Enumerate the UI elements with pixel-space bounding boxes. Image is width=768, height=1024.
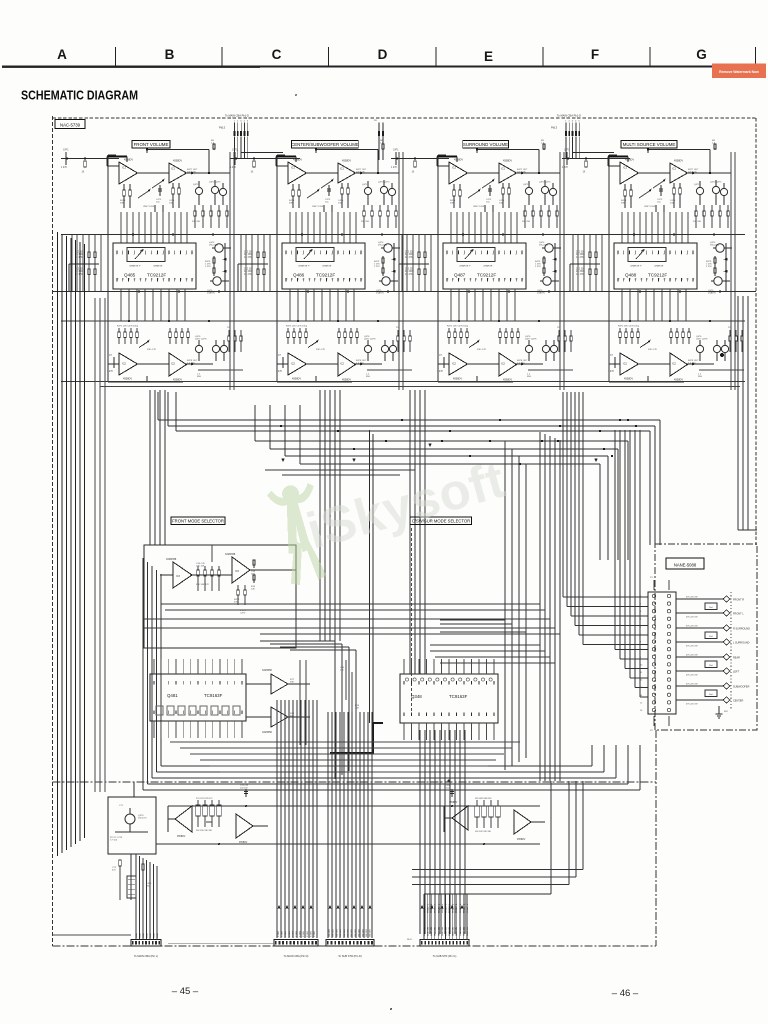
cluster B triangle 2 xyxy=(514,810,531,834)
op-amp Q488d xyxy=(670,353,688,376)
selector lower wire rows xyxy=(170,741,520,743)
svg-text:SW SIG: SW SIG xyxy=(340,929,342,937)
connector strip To SUB STR (Pin D) xyxy=(326,940,374,947)
svg-text:4: 4 xyxy=(134,254,135,256)
svg-text:IC1: IC1 xyxy=(340,168,345,171)
svg-text:VR4?1 20K: VR4?1 20K xyxy=(312,206,324,208)
nested loops right of selector xyxy=(504,441,506,770)
svg-text:NJM4558: NJM4558 xyxy=(262,670,273,672)
transistor Q487 T2 xyxy=(541,186,548,193)
svg-text:4558DV: 4558DV xyxy=(177,836,186,838)
resistor xyxy=(679,183,681,188)
nested loops center xyxy=(334,641,336,779)
transistor Q485 T1 xyxy=(195,187,202,194)
wire drops to switch IC xyxy=(621,212,623,243)
resistor input stub xyxy=(253,161,256,167)
schematic lower-right border xyxy=(655,730,657,946)
svg-text:GND: GND xyxy=(143,933,145,938)
svg-text:33K 4.7K: 33K 4.7K xyxy=(477,349,487,351)
svg-text:R4?2 10K C4?6 100p: R4?2 10K C4?6 100p xyxy=(447,326,469,328)
svg-text:IC1: IC1 xyxy=(122,167,127,170)
bus right corner verticals xyxy=(659,420,661,545)
svg-text:19: 19 xyxy=(487,279,489,281)
svg-text:GND: GND xyxy=(153,933,155,938)
svg-text:1: 1 xyxy=(285,254,286,256)
selector IC Q481 TC9163F xyxy=(150,674,246,721)
op-amp Q485d xyxy=(169,353,187,376)
svg-text:21: 21 xyxy=(652,279,654,281)
resistor stubs right of IC xyxy=(714,256,716,276)
svg-text:IC1: IC1 xyxy=(452,167,457,170)
svg-text:C4?1: C4?1 xyxy=(63,150,69,152)
svg-text:7: 7 xyxy=(320,254,321,256)
feedback loop op-amp1 bold xyxy=(608,155,628,157)
op-amp Q487c xyxy=(449,353,468,375)
resistor stubs right of IC xyxy=(213,256,215,276)
schematic right border xyxy=(755,118,757,545)
verticals bus to NANE right group xyxy=(614,430,616,650)
svg-text:24: 24 xyxy=(629,279,631,281)
svg-text:C SIG: C SIG xyxy=(285,931,287,937)
svg-text:47K 220 1W: 47K 220 1W xyxy=(686,674,697,676)
bus rail y381 xyxy=(61,381,745,383)
potentiometer lower wiper xyxy=(640,341,650,348)
svg-text:8: 8 xyxy=(326,254,327,256)
svg-text:SW SIG: SW SIG xyxy=(366,929,368,937)
svg-text:Ref: Ref xyxy=(709,665,713,667)
transistor Q486 T2 xyxy=(380,186,387,193)
svg-text:47K 220 1W: 47K 220 1W xyxy=(686,655,697,657)
svg-text:GND: GND xyxy=(150,933,152,938)
svg-text:Q4?7 Q4?8: Q4?7 Q4?8 xyxy=(364,339,376,341)
svg-text:7: 7 xyxy=(481,254,482,256)
svg-text:1K 47K: 1K 47K xyxy=(576,257,584,259)
potentiometer volume wiper 2 xyxy=(653,180,665,188)
wire right transistor rail xyxy=(554,243,556,292)
svg-text:IC2: IC2 xyxy=(291,363,296,366)
svg-text:4558DV: 4558DV xyxy=(625,159,634,162)
fuse box xyxy=(705,632,717,639)
svg-text:5: 5 xyxy=(139,254,140,256)
bold wire to Q348 xyxy=(369,430,371,723)
svg-text:4: 4 xyxy=(515,254,516,256)
wire input line xyxy=(391,158,449,160)
svg-text:IC3: IC3 xyxy=(176,575,181,578)
svg-text:CHARGE P: CHARGE P xyxy=(459,265,471,268)
svg-text:1K 47K: 1K 47K xyxy=(244,257,252,259)
svg-text:C SIG: C SIG xyxy=(296,931,298,937)
diamond terminals xyxy=(723,596,730,602)
svg-text:1K 47K: 1K 47K xyxy=(75,274,83,276)
svg-text:33K: 33K xyxy=(290,682,294,684)
connector strip To MAIN CBA (Pin L) xyxy=(131,940,161,947)
selector vertical drops to bottom xyxy=(276,700,278,938)
svg-text:FRONT L: FRONT L xyxy=(435,903,437,913)
svg-text:33K 33K 33K 33K: 33K 33K 33K 33K xyxy=(196,830,213,832)
transistor Q488 T8 xyxy=(721,345,728,352)
svg-text:1 27K: 1 27K xyxy=(437,371,443,373)
svg-text:1 27K: 1 27K xyxy=(107,371,113,373)
svg-text:20: 20 xyxy=(469,279,471,281)
svg-text:22: 22 xyxy=(303,279,305,281)
svg-text:C4?1: C4?1 xyxy=(393,150,399,152)
transistor Q485 T6 xyxy=(195,345,202,352)
svg-text:CHARGE: CHARGE xyxy=(322,265,332,268)
svg-text:23: 23 xyxy=(314,279,316,281)
svg-text:18: 18 xyxy=(504,279,506,281)
op-amp Q488c xyxy=(620,353,639,375)
wires around op-amp pair xyxy=(246,683,271,685)
svg-text:12: 12 xyxy=(360,279,362,281)
op-amp Q488b xyxy=(670,163,688,183)
svg-text:1 27K: 1 27K xyxy=(230,167,236,169)
svg-text:FRONT L: FRONT L xyxy=(456,903,458,913)
capacitor coupling xyxy=(489,185,491,196)
scan speck xyxy=(720,353,724,357)
bus group A horizontal xyxy=(158,419,660,421)
wire op-amp1 output xyxy=(468,172,500,174)
svg-text:SW SIG: SW SIG xyxy=(351,929,353,937)
svg-text:IC2: IC2 xyxy=(452,363,457,366)
svg-text:FRONT L: FRONT L xyxy=(460,903,462,913)
capacitor lower input xyxy=(443,357,445,368)
resistor xyxy=(178,183,180,188)
svg-text:9: 9 xyxy=(492,254,493,256)
wire channel loop left xyxy=(437,155,439,382)
vertical bundle right of selector xyxy=(539,432,541,781)
wire lower out xyxy=(198,369,243,371)
transistor Q485 T7 xyxy=(212,345,219,352)
cluster A cap pair xyxy=(245,789,247,797)
arrow heads on drops xyxy=(278,905,281,908)
wire array verticals xyxy=(572,235,574,292)
switch IC Q485 TC9212F xyxy=(113,243,196,289)
right loops inner vertical xyxy=(550,781,552,894)
svg-text:IC1: IC1 xyxy=(171,168,176,171)
resistor network mid xyxy=(484,205,486,212)
svg-text:C SIG: C SIG xyxy=(282,931,284,937)
selector resistor array xyxy=(197,566,199,570)
svg-text:CHARGE: CHARGE xyxy=(654,265,664,268)
svg-text:3: 3 xyxy=(349,254,350,256)
fuse box xyxy=(705,661,717,668)
connector body xyxy=(648,592,676,714)
svg-text:47K 220 1W: 47K 220 1W xyxy=(686,645,697,647)
resistor xyxy=(502,183,504,188)
svg-text:5: 5 xyxy=(640,254,641,256)
resistor stubs right of IC xyxy=(382,256,384,276)
svg-text:IC2: IC2 xyxy=(122,363,127,366)
svg-text:VR4?1 20K: VR4?1 20K xyxy=(644,206,656,208)
svg-text:330 330: 330 330 xyxy=(693,221,702,223)
IC internal switch xyxy=(457,248,495,262)
svg-text:2: 2 xyxy=(623,254,624,256)
svg-text:GND: GND xyxy=(136,933,138,938)
svg-text:2 27K: 2 27K xyxy=(706,266,712,268)
wire lower out xyxy=(367,369,412,371)
resistor xyxy=(459,184,461,190)
svg-text:Pb13: Pb13 xyxy=(219,126,226,130)
resistor bias stubs xyxy=(695,205,697,211)
selector B lower parts xyxy=(237,585,239,590)
wire array verticals xyxy=(401,235,403,292)
svg-text:MULTI SOURCE VOLUME: MULTI SOURCE VOLUME xyxy=(623,142,676,147)
svg-text:NANE-5088: NANE-5088 xyxy=(674,563,697,568)
svg-text:Q4?2 Q4?3: Q4?2 Q4?3 xyxy=(710,182,722,184)
arrowheads on bus xyxy=(281,459,284,462)
svg-text:NJM4558: NJM4558 xyxy=(262,732,273,734)
svg-text:1K 47K: 1K 47K xyxy=(405,257,413,259)
wire to next stage xyxy=(539,172,560,174)
bottom left resistor stubs xyxy=(115,831,148,833)
transistor Q486 T5 xyxy=(382,277,390,285)
svg-text:1 27K: 1 27K xyxy=(608,371,614,373)
svg-text:33K 33K 47K: 33K 33K 47K xyxy=(196,584,209,586)
svg-text:2SC2240: 2SC2240 xyxy=(209,245,219,247)
wire lower channel rail xyxy=(609,381,684,383)
capacitor input xyxy=(395,152,397,165)
svg-text:1: 1 xyxy=(116,254,117,256)
right nested C loops xyxy=(412,869,583,871)
svg-text:SW SIG: SW SIG xyxy=(355,929,357,937)
transistor Q488 T4 xyxy=(716,244,724,252)
svg-text:8: 8 xyxy=(658,254,659,256)
svg-text:1K 47K: 1K 47K xyxy=(75,257,83,259)
svg-text:4558DV: 4558DV xyxy=(503,160,512,163)
svg-text:FRONT L: FRONT L xyxy=(453,903,455,913)
transistor Q486 T8 xyxy=(389,345,396,352)
IC Q481 internal resistor row xyxy=(156,706,163,715)
bottom op-amp cluster B triangle 1 xyxy=(452,806,468,830)
svg-text:12: 12 xyxy=(692,279,694,281)
svg-text:1 27K: 1 27K xyxy=(391,167,397,169)
wire to next stage xyxy=(378,172,399,174)
array corner xyxy=(68,264,70,292)
svg-text:C4?1: C4?1 xyxy=(232,150,238,152)
wire lower op-amp connections xyxy=(639,363,671,365)
svg-text:CHARGE: CHARGE xyxy=(153,265,163,268)
svg-text:2: 2 xyxy=(174,254,175,256)
transistor Q485 T8 xyxy=(220,345,227,352)
svg-text:4558DV: 4558DV xyxy=(503,379,512,382)
svg-text:Q4?2 Q4?3: Q4?2 Q4?3 xyxy=(378,182,390,184)
svg-text:SW SIG: SW SIG xyxy=(359,929,361,937)
svg-text:To MAIN CBA Pb1-D: To MAIN CBA Pb1-D xyxy=(225,114,249,118)
svg-text:47K 220 1W: 47K 220 1W xyxy=(686,616,697,618)
strip4 wire drops xyxy=(423,894,425,940)
resistor cluster lower xyxy=(448,328,450,332)
svg-text:33K 4.7K: 33K 4.7K xyxy=(648,349,658,351)
op-amp selector A xyxy=(173,562,192,588)
svg-text:Q4?7 Q4?8: Q4?7 Q4?8 xyxy=(696,339,708,341)
fuse box xyxy=(705,690,717,697)
wire NANE group xyxy=(676,685,723,687)
svg-text:IC2: IC2 xyxy=(672,363,677,366)
svg-text:33K: 33K xyxy=(621,203,625,205)
op-amp Q486b xyxy=(338,163,356,183)
junction dots rails xyxy=(462,233,464,235)
svg-text:NJM4558: NJM4558 xyxy=(166,558,177,561)
svg-text:GND SW: GND SW xyxy=(467,926,469,936)
transistor Q485 T2 xyxy=(211,186,218,193)
svg-text:R4?2 10K C4?6 100p: R4?2 10K C4?6 100p xyxy=(117,326,139,328)
svg-text:L SURROUND: L SURROUND xyxy=(733,642,750,645)
svg-text:TC9163F: TC9163F xyxy=(204,693,223,698)
resistor network mid xyxy=(323,205,325,212)
stub resistors lower right xyxy=(558,330,560,336)
svg-text:4: 4 xyxy=(303,254,304,256)
svg-text:4558DV: 4558DV xyxy=(173,160,182,163)
svg-text:Q4?2 Q4?3: Q4?2 Q4?3 xyxy=(539,182,551,184)
svg-text:24: 24 xyxy=(458,279,460,281)
resistor bias stubs xyxy=(194,205,196,211)
svg-text:330 330: 330 330 xyxy=(192,221,201,223)
svg-text:FRONT L: FRONT L xyxy=(467,903,469,913)
svg-text:4558DV: 4558DV xyxy=(342,160,351,163)
wire drops to switch IC xyxy=(450,212,452,243)
wire lower op-amp connections xyxy=(138,363,170,365)
wire op-amp2 output arrow xyxy=(187,172,210,174)
svg-text:Q488: Q488 xyxy=(625,273,637,278)
svg-text:Pb13: Pb13 xyxy=(551,126,558,130)
svg-text:SURROUND VOLUME: SURROUND VOLUME xyxy=(463,142,508,147)
svg-text:16: 16 xyxy=(180,279,182,281)
svg-text:220 4.7K: 220 4.7K xyxy=(517,172,526,174)
svg-text:6: 6 xyxy=(145,254,146,256)
bottom left lower cluster xyxy=(130,854,132,900)
svg-text:12: 12 xyxy=(191,279,193,281)
svg-text:21: 21 xyxy=(151,279,153,281)
bottom rail y844 xyxy=(156,843,540,845)
svg-text:16: 16 xyxy=(681,279,683,281)
svg-text:15: 15 xyxy=(498,279,500,281)
svg-text:1K 47K: 1K 47K xyxy=(576,274,584,276)
svg-text:1K: 1K xyxy=(251,172,254,174)
svg-text:R4?2 10K C4?6 100p: R4?2 10K C4?6 100p xyxy=(618,326,640,328)
svg-text:18: 18 xyxy=(675,279,677,281)
potentiometer volume wiper 1 xyxy=(307,190,319,198)
svg-text:21: 21 xyxy=(320,279,322,281)
svg-text:Pb 8: Pb 8 xyxy=(407,939,412,941)
svg-text:24: 24 xyxy=(297,279,299,281)
IC internal switch xyxy=(628,248,666,262)
svg-text:Q4?1: Q4?1 xyxy=(694,184,700,186)
wire top rail xyxy=(648,149,710,151)
wire drops below IC xyxy=(621,289,623,321)
wire input line xyxy=(230,158,288,160)
wire channel loop verticals right xyxy=(398,152,400,390)
potentiometer lower wiper xyxy=(469,341,479,348)
transistor Q485 T5 xyxy=(213,277,221,285)
svg-text:2SC18 5: 2SC18 5 xyxy=(138,818,147,820)
svg-text:IC1: IC1 xyxy=(291,167,296,170)
svg-text:FRONT MODE SELECTOR: FRONT MODE SELECTOR xyxy=(172,518,224,523)
feedback loop op-amp1 bold xyxy=(276,155,296,157)
svg-text:15: 15 xyxy=(669,279,671,281)
bus lower lines xyxy=(265,469,415,471)
svg-text:C4?1: C4?1 xyxy=(564,150,570,152)
svg-text:IC2: IC2 xyxy=(501,363,506,366)
bus rail y234 xyxy=(61,234,745,236)
svg-text:100 100: 100 100 xyxy=(240,788,248,790)
svg-text:18: 18 xyxy=(174,279,176,281)
svg-text:1 27K: 1 27K xyxy=(61,167,67,169)
svg-text:2SA970: 2SA970 xyxy=(537,292,546,295)
diamond terminals xyxy=(723,683,730,689)
svg-text:Q4?1: Q4?1 xyxy=(193,184,199,186)
svg-text:1 27K: 1 27K xyxy=(276,371,282,373)
wire input line xyxy=(562,158,620,160)
op-amp Q488a xyxy=(620,162,639,184)
transistor bottom left xyxy=(125,814,135,824)
svg-text:GND SW: GND SW xyxy=(435,926,437,936)
svg-text:23: 23 xyxy=(646,279,648,281)
junction dots rails xyxy=(301,233,303,235)
svg-text:15: 15 xyxy=(168,279,170,281)
svg-text:2SC2240: 2SC2240 xyxy=(378,245,388,247)
svg-text:14: 14 xyxy=(686,279,688,281)
svg-text:330 330: 330 330 xyxy=(361,221,370,223)
svg-text:SW SIG: SW SIG xyxy=(348,929,350,937)
svg-text:SCHEMATIC DIAGRAM: SCHEMATIC DIAGRAM xyxy=(21,88,138,103)
wire NANE group xyxy=(676,656,723,658)
cluster A triangle 2 xyxy=(236,814,253,838)
svg-text:GND: GND xyxy=(139,933,141,938)
svg-text:26: 26 xyxy=(291,279,293,281)
resistor cluster lower xyxy=(118,328,120,332)
wire channel loop left xyxy=(276,155,278,382)
svg-text:17: 17 xyxy=(162,279,164,281)
svg-text:– 46 –: – 46 – xyxy=(612,988,639,999)
transistor Q485 T3 xyxy=(219,188,226,195)
schematic top border xyxy=(53,117,757,119)
wire lower channel rail xyxy=(438,381,513,383)
wire lower channel rail xyxy=(277,381,352,383)
resistor stubs right of IC xyxy=(543,256,545,276)
op-amp Q487d xyxy=(499,353,517,376)
wire op-amp2 output arrow xyxy=(688,172,711,174)
svg-text:4558DV: 4558DV xyxy=(449,802,458,804)
svg-text:5: 5 xyxy=(191,254,192,256)
IC internal switch xyxy=(296,248,334,262)
bus rail y321 xyxy=(61,320,745,322)
transistor Q487 T7 xyxy=(542,345,549,352)
op-amp Q485b xyxy=(169,163,187,183)
wire op-amp2 output arrow xyxy=(356,172,379,174)
svg-text:D: D xyxy=(378,47,388,62)
resistor 1.5 stub xyxy=(543,144,545,150)
svg-text:C SIG: C SIG xyxy=(292,931,294,937)
svg-text:23: 23 xyxy=(145,279,147,281)
svg-text:VR4?1 20K: VR4?1 20K xyxy=(473,206,485,208)
svg-text:47K 220 1W: 47K 220 1W xyxy=(686,684,697,686)
svg-text:GND SW: GND SW xyxy=(453,926,455,936)
transistor Q486 T1 xyxy=(364,187,371,194)
resistor network mid xyxy=(154,205,156,212)
svg-text:47K 220 1W: 47K 220 1W xyxy=(686,597,697,599)
wire top rail xyxy=(147,149,209,151)
svg-text:2SA970: 2SA970 xyxy=(708,292,717,295)
wire channel loop left xyxy=(107,155,109,382)
svg-text:1: 1 xyxy=(617,254,618,256)
svg-text:1: 1 xyxy=(337,254,338,256)
svg-text:IC2: IC2 xyxy=(171,363,176,366)
resistor xyxy=(129,184,131,190)
svg-text:26: 26 xyxy=(623,279,625,281)
potentiometer volume wiper 2 xyxy=(321,180,333,188)
resistor array left of IC xyxy=(257,249,259,252)
wire to next stage xyxy=(209,172,230,174)
